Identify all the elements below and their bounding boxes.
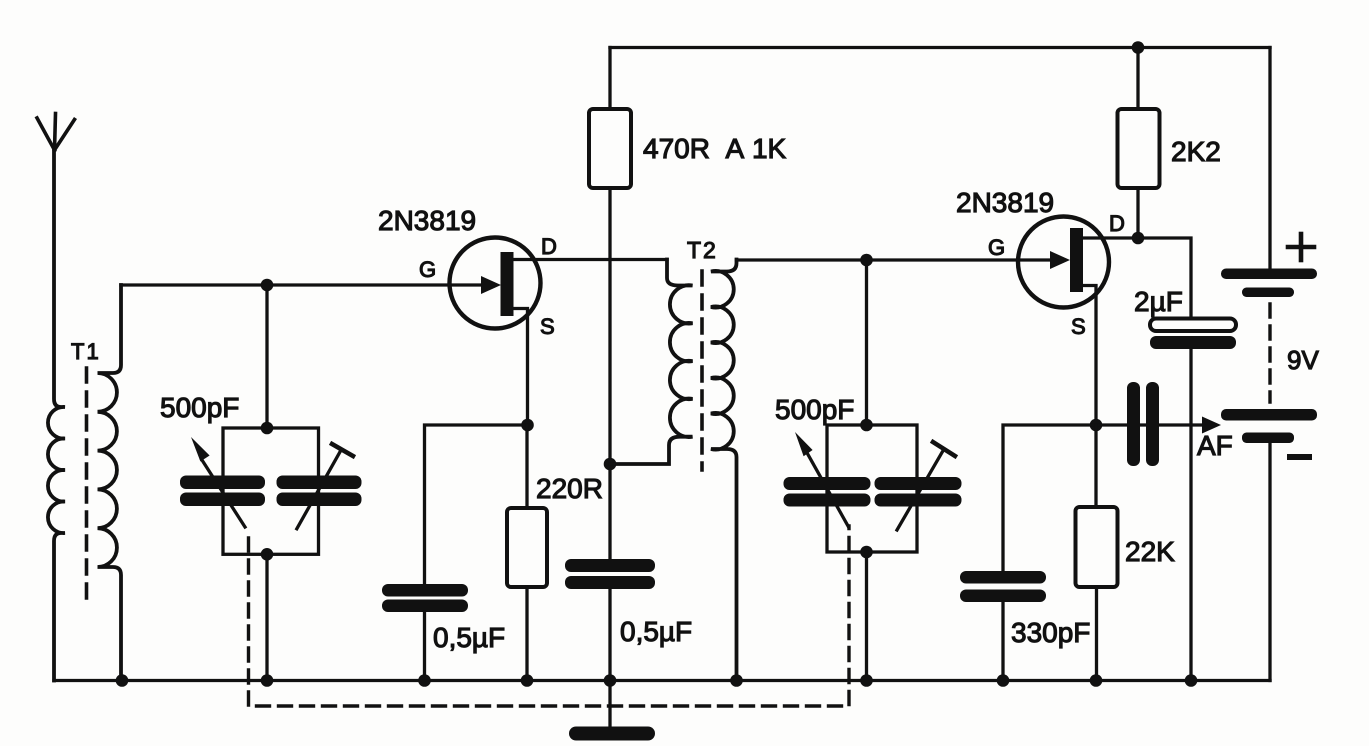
resistor 220R body <box>507 508 547 587</box>
capacitor 0,5uF (decoupling) plates <box>565 559 655 589</box>
wire: T1 secondary top to gate of Q1 <box>121 283 484 286</box>
battery B1 cell 1 short plate <box>1242 288 1294 298</box>
node dot rail x736 <box>730 674 743 687</box>
transistor Q1 2N3819 body <box>450 238 541 329</box>
wire: decoupling cap to ground rail <box>608 589 611 681</box>
wire: tank C2 feed <box>865 260 868 425</box>
node dot rail x866 <box>860 674 873 687</box>
wire: C1 bottom to ground rail <box>265 554 268 680</box>
wire: source node to bypass cap <box>425 425 528 584</box>
node dot gate wire / tank C2 <box>860 254 873 267</box>
capacitor 2uF bottom plate <box>1150 336 1236 349</box>
transformer T1 primary winding <box>48 150 65 681</box>
svg-text:2N3819: 2N3819 <box>378 205 476 236</box>
Q2 channel bar <box>1070 228 1083 292</box>
node dot rail x610 <box>604 674 617 687</box>
resistor 22K top lead <box>1094 425 1097 507</box>
node dot rail x1096 <box>1090 674 1103 687</box>
wire: tank C1 feed from gate wire <box>265 285 268 428</box>
Q1 gate arrow <box>481 276 501 294</box>
svg-text:G: G <box>419 257 436 282</box>
variable capacitor C1 500pF frame <box>223 428 319 554</box>
wire: R1 down to decoupling node <box>608 188 611 559</box>
wire: Q2 source lead down <box>1084 286 1097 426</box>
svg-text:AF: AF <box>1197 430 1233 461</box>
wire: bypass cap to ground rail <box>423 612 426 681</box>
node dot rail / 2K2 <box>1132 41 1145 54</box>
svg-text:2N3819: 2N3819 <box>956 187 1054 218</box>
ground stem <box>608 681 611 728</box>
Q2 gate arrow <box>1050 251 1070 269</box>
wire: 2K2 to drain node <box>1136 188 1139 238</box>
capacitor 0,5uF (source bypass) plates <box>382 584 468 612</box>
label + <box>1288 234 1314 260</box>
svg-text:D: D <box>541 234 557 259</box>
node dot drain node <box>1132 232 1145 245</box>
wire: battery to ground rail <box>1268 443 1271 681</box>
node dot rail x424 <box>418 674 431 687</box>
transformer T2 primary winding <box>610 260 693 465</box>
wire: 2uF to ground rail <box>1189 349 1192 681</box>
label minus <box>1290 454 1309 460</box>
battery dashed middle <box>1268 304 1271 402</box>
variable capacitor C2 500pF frame <box>827 425 917 552</box>
Q1 channel bar <box>501 252 514 316</box>
svg-text:220R: 220R <box>536 473 603 504</box>
wire: Q1 drain to T2 primary top <box>514 258 668 261</box>
node dot AF node <box>1090 419 1103 432</box>
C2 section a plates <box>784 477 871 507</box>
transformer T2 secondary winding <box>711 260 737 681</box>
node dot C1 bottom <box>261 548 274 561</box>
top supply rail <box>610 46 1270 49</box>
transistor Q2 2N3819 body <box>1018 217 1109 308</box>
resistor 2K2 top lead <box>1136 48 1139 110</box>
C1 section b trimmer shaft <box>297 444 353 529</box>
node dot source node <box>521 419 534 432</box>
C1 section a plates <box>180 476 265 507</box>
C2 section b trimmer shaft <box>897 442 955 530</box>
wire: Q2 drain to 2uF corner <box>1084 238 1192 319</box>
svg-text:S: S <box>540 314 555 339</box>
wire: supply rail to battery <box>1268 48 1271 270</box>
resistor R1 470R body <box>589 109 631 188</box>
wire: rail to R1 <box>608 48 611 110</box>
node dot gate wire / tank C1 <box>261 279 274 292</box>
wire: C2 bottom to ground rail <box>865 552 868 681</box>
transformer T2 core (dashed) <box>700 271 704 470</box>
svg-text:T2: T2 <box>687 237 718 263</box>
node dot C2 top <box>860 419 873 432</box>
svg-text:T1: T1 <box>71 339 101 364</box>
AF output line <box>1096 423 1204 426</box>
antenna <box>37 114 75 151</box>
svg-text:0,5µF: 0,5µF <box>620 616 692 647</box>
svg-text:9V: 9V <box>1287 345 1319 375</box>
wire: AF line corner down to 330pF <box>1003 425 1096 571</box>
wire: 330pF to ground rail <box>1001 602 1004 681</box>
node dot decoupling node <box>604 458 617 471</box>
svg-text:2µF: 2µF <box>1134 286 1183 317</box>
wire: Q1 source lead down <box>514 309 528 426</box>
wire: 220R to ground rail <box>525 587 528 681</box>
svg-text:G: G <box>988 235 1005 260</box>
node dot rail x527 <box>521 674 534 687</box>
wire: source node to 220R <box>525 425 528 508</box>
ground rail <box>54 679 1270 682</box>
capacitor 330pF plates <box>960 571 1046 602</box>
battery B1 cell 1 long plate <box>1221 269 1317 280</box>
svg-text:0,5µF: 0,5µF <box>433 622 505 653</box>
svg-text:D: D <box>1109 211 1125 236</box>
battery B1 cell 2 short plate <box>1242 433 1294 444</box>
svg-text:500pF: 500pF <box>775 394 854 425</box>
ganged tuning dashed link <box>249 526 850 706</box>
C2 section b plates <box>875 477 962 507</box>
svg-text:22K: 22K <box>1125 536 1175 567</box>
node dot rail x1003 <box>997 674 1010 687</box>
resistor 22K body <box>1076 507 1118 587</box>
node dot rail x267 <box>261 674 274 687</box>
svg-text:500pF: 500pF <box>160 392 239 423</box>
C2 section a rotor shaft arrow <box>795 432 848 526</box>
capacitor 2uF top plate (hollow) <box>1150 319 1236 332</box>
svg-text:470R A 1K: 470R A 1K <box>643 133 787 164</box>
C1 section a rotor shaft arrow <box>191 437 245 527</box>
transformer T1 core (dashed) <box>85 368 89 604</box>
svg-text:330pF: 330pF <box>1011 617 1090 648</box>
AF arrowhead <box>1202 417 1221 434</box>
node dot rail x1191 <box>1185 674 1198 687</box>
wire: 22K to ground rail <box>1095 587 1098 681</box>
ground symbol <box>569 727 655 741</box>
node dot rail x122 <box>116 674 129 687</box>
svg-text:2K2: 2K2 <box>1171 136 1221 167</box>
node dot C2 bottom <box>860 546 873 559</box>
C1 section b plates <box>277 476 362 507</box>
battery B1 cell 2 long plate <box>1221 409 1317 421</box>
transformer T1 secondary winding <box>98 285 122 681</box>
node dot C1 top <box>261 422 274 435</box>
resistor 2K2 body <box>1118 109 1160 188</box>
svg-text:S: S <box>1071 314 1086 339</box>
wire: T2 secondary top to gate of Q2 <box>737 258 1053 261</box>
AF coupling capacitor plates <box>1127 382 1159 466</box>
